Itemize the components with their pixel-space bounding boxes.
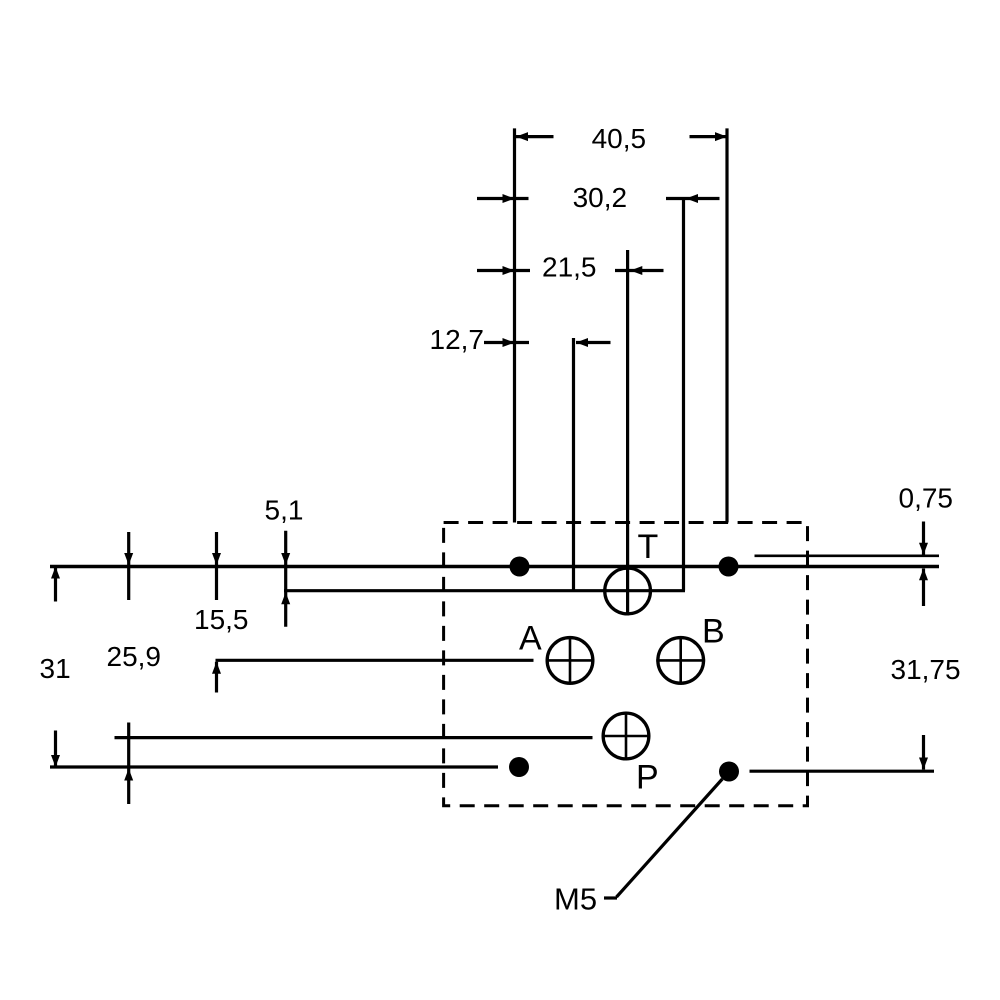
svg-text:40,5: 40,5 [592,123,647,154]
svg-text:31: 31 [40,653,71,684]
svg-text:15,5: 15,5 [194,604,249,635]
svg-text:P: P [636,759,659,797]
svg-text:31,75: 31,75 [891,654,961,685]
svg-text:5,1: 5,1 [265,495,304,526]
svg-text:25,9: 25,9 [107,641,162,672]
svg-text:A: A [519,620,542,658]
svg-text:30,2: 30,2 [573,182,628,213]
svg-text:12,7: 12,7 [430,324,485,355]
svg-text:21,5: 21,5 [542,252,597,283]
svg-text:0,75: 0,75 [899,483,954,514]
svg-text:T: T [638,528,659,566]
svg-text:B: B [702,613,725,651]
svg-text:M5: M5 [554,882,597,917]
